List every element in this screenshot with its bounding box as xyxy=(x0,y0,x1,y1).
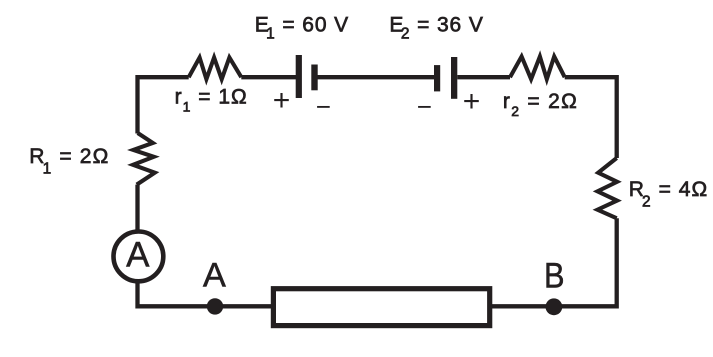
wire E2 to r2 xyxy=(457,75,510,79)
battery E2 positive plate xyxy=(451,57,457,99)
resistor r2 xyxy=(510,57,565,80)
wire top-right corner segment xyxy=(565,77,617,158)
wire r1 to E1 xyxy=(241,75,296,79)
node B xyxy=(546,298,563,315)
resistor R2 xyxy=(598,158,618,218)
wire E1 to E2 xyxy=(317,75,434,79)
svg-text:A: A xyxy=(203,257,226,295)
resistor r1 xyxy=(189,58,242,80)
wire box to node A to bottom-left corner xyxy=(138,282,272,306)
ammeter A xyxy=(113,232,163,282)
svg-text:−: − xyxy=(316,91,331,121)
svg-text:+: + xyxy=(273,84,291,117)
wire bottom-right corner segment xyxy=(492,218,617,306)
svg-text:+: + xyxy=(463,85,481,118)
wire top-left corner segment xyxy=(138,77,189,133)
battery E1 negative plate xyxy=(311,65,317,91)
svg-text:B: B xyxy=(544,256,565,295)
battery E2 negative plate xyxy=(434,65,440,91)
svg-text:A: A xyxy=(126,235,150,274)
resistor R1 xyxy=(133,133,155,185)
battery E1 positive plate xyxy=(296,55,302,98)
node A xyxy=(207,298,223,314)
resistor box between A and B xyxy=(273,289,489,326)
svg-text:−: − xyxy=(417,91,432,121)
wire ammeter to R1 xyxy=(135,185,139,230)
